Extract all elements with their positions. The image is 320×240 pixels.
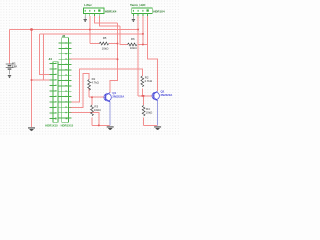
- wire R4 bottom: [143, 118, 145, 126]
- wire W1 IC pin4 to collector column: [68, 58, 117, 60]
- wire R3 top: [91, 97, 93, 105]
- wire W3 IC pin13 to R1 top: [68, 73, 89, 107]
- junction R2 bottom: [141, 95, 143, 97]
- svg-text:J4: J4: [49, 57, 53, 61]
- resistor R6: [128, 37, 138, 50]
- wire J1 pin4 jog: [99, 16, 120, 26]
- ground arrow J3 pin1: [132, 16, 135, 22]
- wire R5 left lead: [90, 43, 100, 45]
- wire Q2 base: [138, 95, 152, 97]
- wire gnd to J4 pin4: [32, 79, 44, 81]
- connector J4: [45, 57, 58, 128]
- svg-text:HDR1X4: HDR1X4: [105, 9, 117, 13]
- wire J3 pin4 down: [147, 16, 149, 45]
- svg-text:10kΩ: 10kΩ: [102, 46, 110, 50]
- junction R3 top: [91, 96, 93, 98]
- svg-text:R5: R5: [103, 36, 107, 40]
- wire battery top: [9, 30, 11, 64]
- wire R2 bottom: [141, 88, 143, 96]
- header J3 Tanin_LED: [130, 3, 165, 16]
- battery V1: [6, 62, 17, 75]
- resistor R1: [88, 77, 100, 90]
- transistor Q1: [104, 91, 124, 102]
- wire R6 right lead: [137, 44, 147, 46]
- resistor R5: [99, 36, 109, 50]
- junction R4 top: [143, 95, 145, 97]
- junction H2 right end: [142, 33, 144, 35]
- wire collector column Q1: [110, 23, 117, 93]
- svg-text:4.7kΩ: 4.7kΩ: [91, 81, 99, 85]
- wire Q1 emitter to ground: [109, 102, 111, 125]
- wire main ground vertical: [31, 30, 33, 128]
- wire J3 pin3 down to R6 lead: [142, 16, 144, 45]
- wire Q2 emitter to ground: [157, 101, 159, 126]
- wire J4 pin3 feed: [40, 34, 50, 75]
- wire J4 pin4 feed: [44, 34, 50, 80]
- wire ground rail right: [144, 124, 158, 126]
- wire IC pin14 to ground rail: [68, 113, 98, 126]
- svg-text:4.7kΩ: 4.7kΩ: [144, 79, 152, 83]
- ground main vertical bottom: [28, 127, 35, 130]
- junction H1 right end: [137, 29, 139, 31]
- svg-text:Tanin_LED: Tanin_LED: [130, 3, 146, 7]
- svg-text:HDR1X4: HDR1X4: [153, 9, 165, 13]
- wire R6 left feed: [120, 26, 128, 44]
- ground arrow J1 pin1: [84, 16, 87, 22]
- junction W1 on collector column: [117, 58, 119, 60]
- wire J1 pin2 down to R5: [89, 16, 91, 44]
- svg-text:10kΩ: 10kΩ: [146, 110, 154, 114]
- wire Q1 base: [89, 96, 104, 98]
- wire R3 bottom: [91, 118, 93, 126]
- connector J2: [59, 34, 74, 127]
- junction gnd-J4: [31, 79, 33, 81]
- ground arrow Q1 emitter: [107, 126, 114, 129]
- wire W2 IC pin12 to R2 top: [68, 69, 142, 102]
- wire jog to Q2 collector: [148, 45, 158, 91]
- svg-text:Lifter: Lifter: [84, 3, 92, 7]
- junction main: [30, 28, 33, 31]
- svg-text:R6: R6: [131, 37, 135, 41]
- wire R1 bottom to base: [88, 88, 90, 97]
- svg-text:2N2222A: 2N2222A: [161, 93, 173, 97]
- resistor R3: [91, 105, 102, 116]
- wire ground rail left: [92, 124, 110, 126]
- svg-text:10kΩ: 10kΩ: [94, 108, 102, 112]
- svg-text:12V: 12V: [12, 64, 17, 68]
- wire H2 bus: [40, 33, 143, 35]
- ground arrow Q2 emitter: [154, 126, 161, 129]
- svg-text:HDR1X15: HDR1X15: [61, 124, 74, 128]
- svg-text:10kΩ: 10kΩ: [130, 46, 138, 50]
- junction R6 lead pin3: [142, 44, 144, 46]
- resistor R4: [142, 105, 153, 116]
- wire R5 right lead: [109, 43, 117, 45]
- wire J1 pin3 jog: [95, 16, 118, 23]
- junction gnd rail left: [98, 124, 100, 126]
- svg-text:2N2222A: 2N2222A: [112, 94, 124, 98]
- resistor R2: [141, 76, 153, 87]
- transistor Q2: [152, 89, 172, 100]
- header J1 Lifter: [83, 3, 116, 16]
- ground arrow battery: [8, 75, 11, 78]
- wire H1 +12V bus: [10, 29, 139, 31]
- wire R4 top: [143, 96, 145, 105]
- junction R5 right: [117, 43, 119, 45]
- wire J3 pin2 down to Q2 base: [137, 16, 139, 96]
- junction J1 pin2 on H1: [89, 29, 91, 31]
- svg-text:HDR1X15: HDR1X15: [45, 124, 58, 128]
